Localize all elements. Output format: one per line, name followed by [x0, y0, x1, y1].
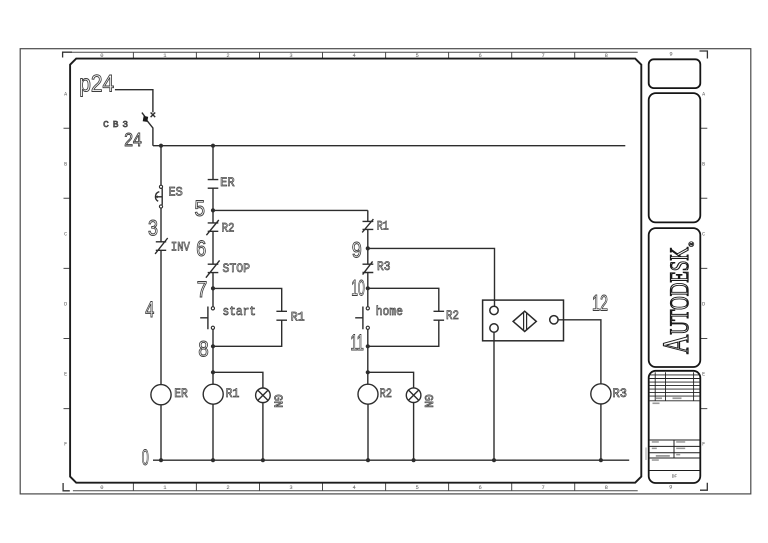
svg-text:B: B: [702, 162, 705, 168]
svg-text:9: 9: [352, 237, 362, 262]
svg-text:D: D: [64, 302, 67, 308]
svg-text:3: 3: [148, 216, 158, 241]
svg-text:5: 5: [415, 484, 418, 491]
svg-text:INV: INV: [171, 240, 190, 255]
svg-text:6: 6: [196, 236, 206, 261]
svg-text:R3: R3: [613, 386, 628, 401]
svg-text:D: D: [702, 302, 705, 308]
svg-text:9: 9: [669, 483, 672, 490]
svg-text:GN: GN: [421, 394, 435, 408]
svg-text:R2: R2: [222, 220, 235, 235]
svg-text:A: A: [64, 92, 67, 98]
svg-text:6: 6: [479, 484, 482, 491]
svg-text:C: C: [64, 232, 67, 238]
svg-text:DF: DF: [672, 474, 678, 480]
svg-text:3: 3: [289, 484, 292, 491]
svg-text:E: E: [64, 372, 67, 378]
svg-text:B: B: [64, 162, 67, 168]
svg-text:R2: R2: [380, 386, 393, 401]
svg-text:p24: p24: [79, 70, 114, 97]
svg-text:10: 10: [351, 276, 365, 301]
svg-text:7: 7: [197, 277, 208, 302]
svg-text:CB3: CB3: [103, 119, 128, 130]
svg-text:®: ®: [687, 241, 696, 247]
svg-text:R1: R1: [226, 386, 240, 401]
svg-text:F: F: [64, 442, 67, 448]
svg-text:12: 12: [592, 290, 608, 315]
svg-text:STOP: STOP: [223, 261, 251, 276]
svg-text:11: 11: [350, 330, 364, 355]
svg-text:9: 9: [669, 51, 672, 58]
svg-text:8: 8: [605, 484, 608, 491]
svg-text:8: 8: [198, 337, 209, 362]
svg-text:2: 2: [226, 484, 229, 491]
svg-text:A: A: [702, 92, 705, 98]
svg-text:E: E: [702, 372, 705, 378]
svg-text:start: start: [223, 304, 257, 319]
svg-text:1: 1: [163, 484, 167, 491]
svg-text:24: 24: [124, 129, 142, 150]
svg-text:ER: ER: [220, 175, 235, 190]
svg-text:R1: R1: [377, 219, 389, 234]
svg-text:5: 5: [195, 196, 206, 221]
svg-text:R2: R2: [446, 308, 459, 323]
svg-text:F: F: [702, 442, 705, 448]
svg-text:C: C: [702, 232, 705, 238]
svg-text:4: 4: [145, 297, 154, 322]
svg-text:R1: R1: [291, 310, 305, 325]
svg-text:7: 7: [542, 484, 545, 491]
svg-text:home: home: [376, 304, 403, 319]
svg-text:0: 0: [100, 484, 103, 491]
svg-text:0: 0: [142, 445, 149, 470]
svg-text:ER: ER: [174, 386, 188, 401]
svg-text:4: 4: [352, 484, 356, 491]
svg-text:GN: GN: [271, 394, 285, 408]
svg-text:R3: R3: [377, 259, 391, 274]
svg-text:Autodesk: Autodesk: [656, 247, 697, 354]
svg-text:ES: ES: [169, 184, 183, 199]
